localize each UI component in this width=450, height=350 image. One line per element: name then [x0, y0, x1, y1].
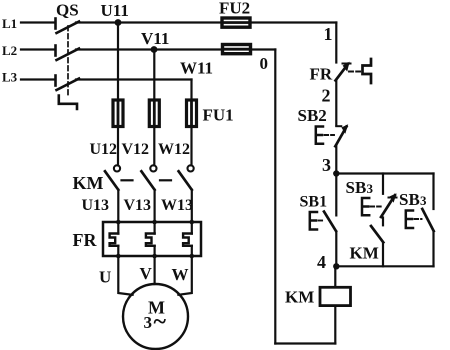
svg-text:FR: FR	[310, 65, 333, 84]
QS handle	[59, 96, 77, 110]
wire mid branch between	[382, 218, 384, 226]
svg-text:0: 0	[260, 54, 269, 73]
FR heater element U	[110, 234, 119, 246]
wire W KM to FR	[191, 190, 193, 234]
svg-text:U11: U11	[101, 1, 129, 20]
svg-text:L3: L3	[2, 70, 18, 85]
svg-text:V11: V11	[141, 29, 169, 48]
wire rail 2-3	[335, 146, 337, 174]
wire right branch lower	[432, 232, 434, 267]
svg-text:U13: U13	[82, 197, 110, 214]
node 3 junction	[333, 170, 339, 176]
FR contact (NC)	[336, 62, 351, 81]
contactor KM main contact V	[141, 165, 156, 190]
wire L2 to rail 0	[76, 48, 275, 50]
node V11	[151, 46, 158, 53]
wire V KM to FR	[154, 190, 156, 234]
svg-text:L2: L2	[2, 43, 17, 58]
node 4 junction	[333, 263, 339, 269]
svg-text:3: 3	[367, 181, 374, 196]
fuse FU2 upper	[222, 18, 250, 27]
QS linkage dashed	[67, 26, 69, 95]
pushbutton SB1 (NO)	[310, 212, 336, 231]
FR heater element W	[183, 234, 192, 246]
svg-text:2: 2	[322, 86, 331, 106]
FR release symbol	[363, 59, 372, 83]
wire rail SB1 upper	[335, 174, 337, 216]
wire W phase vertical	[190, 80, 192, 101]
wire coil to bottom	[334, 306, 336, 344]
svg-text:U12: U12	[90, 141, 118, 158]
fuse FU1 pole W	[187, 100, 197, 127]
svg-text:W: W	[172, 265, 189, 284]
fuse FU2 lower	[223, 45, 251, 54]
svg-text:U: U	[99, 268, 111, 287]
svg-text:3: 3	[144, 313, 153, 332]
svg-text:V13: V13	[124, 197, 152, 214]
wire parallel branch top	[336, 172, 433, 174]
thermal relay FR box	[103, 222, 201, 256]
svg-text:W13: W13	[161, 197, 193, 214]
svg-text:SB: SB	[346, 178, 367, 197]
wire U FR to motor	[118, 246, 132, 295]
coil KM	[320, 287, 351, 305]
svg-text:FU2: FU2	[219, 0, 250, 18]
wire W fuse to KM	[190, 127, 192, 166]
svg-text:FR: FR	[73, 230, 98, 250]
FR box junction dots	[116, 220, 194, 259]
wire rail 1-2	[335, 81, 337, 126]
svg-text:KM: KM	[285, 288, 314, 307]
svg-text:W12: W12	[158, 141, 190, 158]
svg-text:QS: QS	[56, 1, 79, 20]
svg-text:FU1: FU1	[203, 106, 234, 125]
wire mid branch upper	[382, 174, 384, 194]
wire W FR to motor	[178, 246, 191, 295]
wire L1 feed	[21, 21, 54, 23]
wire mid branch lower	[382, 243, 384, 266]
wire control rail right	[335, 23, 337, 63]
wire U fuse to KM	[117, 127, 119, 166]
svg-text:KM: KM	[73, 173, 104, 193]
wire L1 to node 1	[76, 21, 336, 23]
contactor KM main contact W	[179, 165, 194, 190]
wire parallel branch bottom	[336, 265, 433, 267]
svg-text:W11: W11	[180, 59, 213, 78]
wire L3 horizontal	[76, 78, 192, 80]
FR heater element V	[146, 234, 155, 246]
svg-text:L1: L1	[2, 16, 17, 31]
svg-text:SB1: SB1	[300, 194, 328, 211]
wire node4 to coil	[334, 266, 336, 287]
pushbutton SB2 (NC)	[316, 124, 348, 146]
svg-text:3: 3	[322, 155, 331, 175]
svg-text:SB: SB	[399, 190, 420, 209]
node U11	[115, 19, 122, 26]
wire V fuse to KM	[153, 127, 155, 166]
KM linkage dashes	[122, 179, 172, 181]
svg-text:V: V	[140, 264, 153, 283]
fuse FU1 pole U	[113, 100, 123, 127]
wire V FR to motor	[154, 246, 156, 284]
wire L3 feed	[21, 78, 54, 80]
svg-text:V12: V12	[122, 141, 150, 158]
wire U KM to FR	[117, 190, 119, 234]
contactor KM main contact U	[105, 165, 120, 190]
wire L2 feed	[21, 48, 54, 50]
FR contact dashes	[349, 71, 361, 73]
svg-text:~: ~	[154, 309, 167, 335]
switch QS pole 2	[56, 46, 80, 61]
switch QS pole 3	[56, 76, 80, 91]
contact KM auxiliary (NO)	[371, 226, 383, 242]
svg-text:4: 4	[317, 252, 326, 272]
wire right branch upper	[432, 174, 434, 210]
pushbutton SB3 (NC) mid branch	[362, 193, 397, 217]
wire rail 0	[274, 50, 276, 344]
svg-text:3: 3	[420, 193, 427, 208]
fuse FU1 pole V	[149, 100, 159, 127]
wire U phase vertical	[117, 23, 119, 101]
motor M circle	[123, 284, 188, 349]
switch QS pole 1	[56, 19, 80, 34]
svg-text:SB2: SB2	[298, 106, 327, 125]
svg-text:1: 1	[324, 24, 333, 44]
wire V phase vertical	[153, 50, 155, 101]
pushbutton SB3 (NO) right branch	[406, 209, 434, 231]
svg-text:KM: KM	[350, 244, 379, 263]
wire rail SB1 lower	[335, 232, 337, 267]
wire bottom return	[275, 342, 335, 344]
